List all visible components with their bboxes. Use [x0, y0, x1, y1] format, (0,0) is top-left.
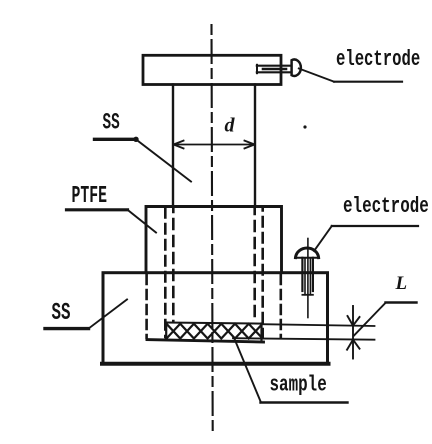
lower SS leader diagonal	[89, 300, 128, 329]
svg-text:SS: SS	[103, 109, 120, 136]
top bolt left end tick	[256, 65, 258, 73]
svg-text:SS: SS	[52, 300, 71, 327]
PTFE leader diagonal	[128, 210, 157, 233]
L dimension vertical line	[352, 306, 354, 359]
L dimension upper arrowhead (points down)	[348, 316, 360, 326]
recess floor line (thick)	[147, 340, 264, 342]
hidden PTFE edge dashed (right)	[279, 275, 282, 338]
hidden cylinder dashed (right inner)	[253, 207, 256, 322]
svg-text:L: L	[395, 273, 408, 294]
sample hatch zigzag B	[167, 324, 262, 339]
sample right edge	[260, 324, 262, 340]
hidden hole wall dashed (left outer)	[164, 208, 167, 337]
right electrode shaft outer right	[312, 258, 314, 291]
leader to right electrode label (diagonal)	[314, 226, 332, 251]
cylinder left wall	[172, 85, 174, 207]
bottom SS block bottom edge (thick)	[102, 362, 329, 366]
stray ink speck	[303, 125, 306, 128]
upper SS leader dot	[133, 137, 138, 142]
top bolt shaft upper line	[257, 65, 291, 67]
hidden cylinder dashed (left inner)	[172, 207, 175, 322]
d dimension left arrowhead	[174, 141, 184, 149]
d dimension right arrowhead	[245, 141, 255, 149]
svg-text:electrode: electrode	[343, 193, 429, 218]
top plate (upper SS electrode plate)	[143, 55, 281, 84]
right electrode bolt dome head	[296, 248, 319, 258]
hidden hole wall dashed (right outer)	[261, 208, 264, 337]
vertical centerline (dash-dot axis)	[212, 25, 213, 433]
PTFE label underline	[67, 208, 128, 211]
sample hatch zigzag A	[167, 324, 262, 339]
sample bottom / L lower extension line	[233, 338, 375, 340]
d dimension line	[174, 144, 254, 146]
sample label underline	[261, 401, 348, 403]
right electrode shaft inner left	[304, 258, 306, 295]
svg-text:sample: sample	[270, 372, 327, 397]
L label underline	[386, 301, 417, 303]
right electrode bolt dome base	[295, 257, 319, 259]
bottom SS block outline	[103, 273, 328, 364]
PTFE block outline	[146, 207, 282, 273]
hidden PTFE edge dashed (left)	[145, 275, 148, 338]
right electrode shaft inner right	[309, 258, 311, 295]
right electrode center pin	[307, 239, 309, 318]
sample leader diagonal	[235, 339, 262, 403]
sample left edge	[165, 323, 167, 339]
right electrode shaft outer left	[301, 258, 303, 291]
svg-text:electrode: electrode	[336, 46, 420, 71]
upper SS label underline	[95, 138, 137, 141]
upper SS leader diagonal	[137, 140, 192, 182]
svg-text:d: d	[225, 115, 236, 137]
cylinder right wall	[254, 85, 256, 207]
L dimension lower arrowhead (points up)	[347, 340, 360, 350]
svg-text:PTFE: PTFE	[72, 183, 108, 209]
leader line to top electrode label (horizontal)	[334, 81, 402, 83]
leader to right electrode label (horizontal)	[332, 225, 418, 227]
L leader diagonal	[354, 303, 386, 336]
top bolt shaft middle line	[263, 68, 286, 71]
L upper extension line	[262, 324, 375, 326]
top bolt shaft lower line	[257, 71, 291, 73]
leader line to top electrode label (diagonal)	[299, 69, 334, 82]
sample top edge	[166, 323, 262, 324]
lower SS label underline	[45, 327, 89, 330]
top bolt flange disc	[292, 60, 301, 76]
right electrode shaft bottom cap	[302, 294, 313, 296]
